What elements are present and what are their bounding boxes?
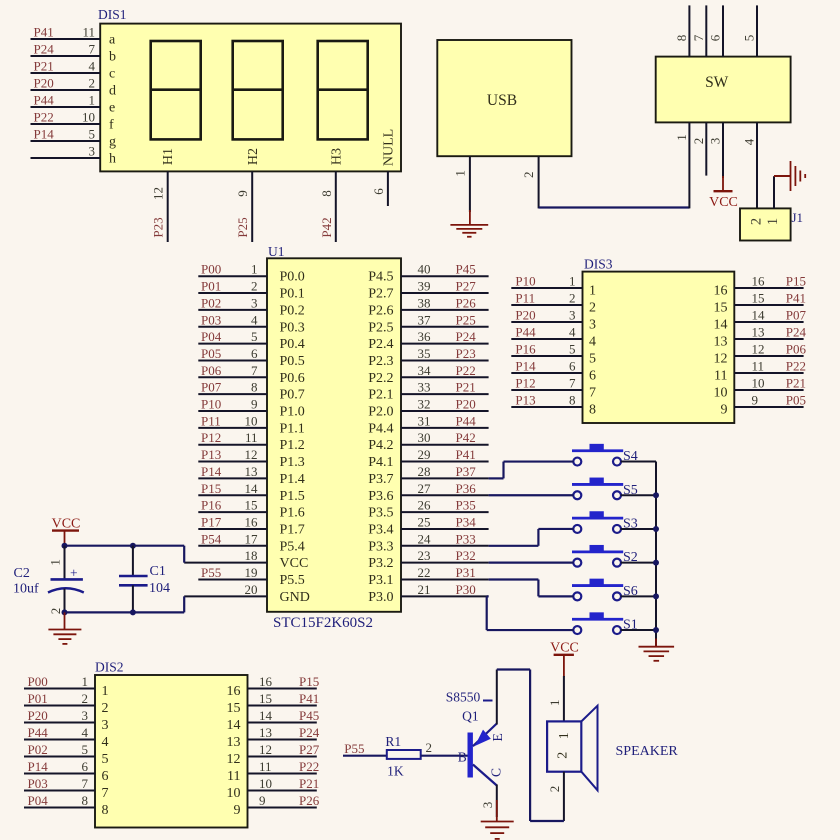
svg-text:P00: P00	[28, 674, 48, 689]
U1 pin 38 (P2.6) net P26	[368, 295, 488, 318]
svg-text:P21: P21	[299, 776, 319, 791]
ground at Q1 collector	[481, 800, 514, 839]
ground below C2	[48, 612, 81, 644]
svg-text:P20: P20	[28, 708, 48, 723]
svg-text:P12: P12	[515, 376, 535, 391]
svg-text:P0.7: P0.7	[280, 388, 305, 403]
Q1 collector pin 3	[480, 785, 497, 818]
U1 pin 32 (P2.0) net P20	[368, 397, 488, 420]
DIS2 pin 10 net P21	[227, 776, 320, 801]
wire net P31 to S6	[489, 580, 574, 597]
svg-text:P0.6: P0.6	[280, 371, 305, 386]
svg-text:27: 27	[418, 481, 432, 496]
svg-text:P31: P31	[456, 565, 476, 580]
svg-text:P22: P22	[34, 110, 54, 125]
svg-text:15: 15	[227, 701, 241, 716]
capacitor C2 10uf (polarized)	[13, 546, 84, 615]
U1 pin 23 (P3.2) net P32	[368, 548, 488, 571]
svg-text:SPEAKER: SPEAKER	[616, 744, 679, 759]
svg-text:1: 1	[547, 700, 562, 707]
svg-text:P41: P41	[299, 691, 319, 706]
svg-text:3: 3	[480, 802, 495, 809]
junction at C1 bottom	[130, 609, 136, 615]
svg-text:P02: P02	[28, 742, 48, 757]
svg-text:1: 1	[89, 93, 96, 108]
svg-text:USB: USB	[487, 92, 517, 109]
svg-text:C: C	[488, 768, 503, 777]
svg-text:11: 11	[227, 769, 240, 784]
svg-text:P3.0: P3.0	[368, 590, 393, 605]
DIS3 pin 3 net P20	[511, 308, 596, 333]
svg-text:P24: P24	[299, 725, 320, 740]
DIS2 pin 8 net P04	[24, 793, 109, 818]
svg-text:h: h	[109, 152, 116, 167]
DIS3 pin 9 net P05	[721, 393, 807, 418]
svg-text:9: 9	[721, 403, 728, 418]
wire ground rail to U1 pin 20	[65, 596, 185, 612]
svg-text:8: 8	[319, 190, 334, 197]
pushbutton switch S2	[572, 545, 656, 567]
svg-text:GND: GND	[280, 590, 310, 605]
svg-text:5: 5	[742, 35, 757, 42]
svg-text:P34: P34	[456, 514, 477, 529]
svg-text:3: 3	[89, 144, 96, 159]
U1 pin 3 (P0.2) net P02	[198, 295, 304, 318]
svg-text:P36: P36	[456, 481, 477, 496]
svg-text:13: 13	[259, 725, 272, 740]
DIS2 pin 7 net P03	[24, 776, 109, 801]
svg-text:12: 12	[245, 447, 258, 462]
ground at J1 (sideways)	[790, 161, 792, 191]
svg-text:13: 13	[227, 735, 241, 750]
junction at VCC node	[62, 543, 68, 549]
svg-text:4: 4	[82, 725, 89, 740]
USB pin 1	[453, 156, 470, 212]
DIS2 pin 4 net P44	[24, 725, 109, 750]
U1 pin 11 (P1.2) net P12	[198, 430, 304, 453]
svg-text:3: 3	[589, 318, 596, 333]
svg-text:P22: P22	[456, 363, 476, 378]
svg-text:12: 12	[151, 187, 166, 200]
svg-text:Q1: Q1	[462, 709, 479, 724]
U1 pin 37 (P2.5) net P25	[368, 312, 488, 335]
svg-text:P16: P16	[201, 498, 222, 513]
svg-text:10: 10	[259, 776, 272, 791]
svg-text:P44: P44	[456, 413, 477, 428]
U1 pin 16 (P1.7) net P17	[198, 514, 304, 537]
DIS2 pin 11 net P22	[227, 759, 319, 784]
svg-text:B: B	[458, 750, 467, 765]
svg-text:P4.2: P4.2	[368, 438, 393, 453]
svg-text:H2: H2	[246, 148, 261, 165]
J1 pin 1 wire to ground	[774, 176, 791, 208]
svg-text:14: 14	[245, 481, 259, 496]
svg-text:P00: P00	[201, 262, 221, 277]
svg-text:g: g	[109, 135, 116, 150]
U1 pin 6 (P0.5) net P05	[198, 346, 304, 369]
U1 pin 33 (P2.1) net P21	[368, 380, 488, 403]
svg-text:5: 5	[589, 352, 596, 367]
svg-text:25: 25	[418, 514, 431, 529]
svg-text:10: 10	[245, 413, 258, 428]
svg-text:7: 7	[691, 34, 706, 41]
SW pin 4	[742, 122, 758, 208]
svg-text:P15: P15	[201, 481, 221, 496]
svg-text:P0.2: P0.2	[280, 303, 305, 318]
wire speaker loop to Q1 emitter	[497, 670, 564, 822]
svg-text:P05: P05	[786, 393, 806, 408]
svg-text:P21: P21	[786, 376, 806, 391]
svg-text:1: 1	[674, 134, 689, 141]
svg-text:18: 18	[245, 548, 258, 563]
svg-text:2: 2	[102, 701, 109, 716]
ground at USB pin 1	[450, 210, 488, 237]
svg-text:P22: P22	[299, 759, 319, 774]
svg-text:6: 6	[589, 369, 596, 384]
junction key bus at S3	[653, 526, 659, 532]
svg-text:11: 11	[714, 369, 727, 384]
svg-text:P07: P07	[201, 380, 222, 395]
svg-text:P5.5: P5.5	[280, 573, 305, 588]
svg-text:P3.6: P3.6	[368, 489, 393, 504]
svg-text:P33: P33	[456, 531, 476, 546]
wire USB pin2 to SW pin1	[539, 206, 690, 208]
U1 pin 14 (P1.5) net P15	[198, 481, 304, 504]
svg-text:2: 2	[48, 608, 63, 615]
svg-text:P1.4: P1.4	[280, 472, 305, 487]
svg-text:1: 1	[453, 170, 468, 177]
svg-text:15: 15	[714, 301, 728, 316]
connector J1	[740, 208, 803, 240]
svg-text:31: 31	[418, 413, 431, 428]
U1 pin 5 (P0.4) net P04	[198, 329, 304, 352]
svg-text:20: 20	[245, 582, 258, 597]
U1 pin 12 (P1.3) net P13	[198, 447, 304, 470]
SW pin 1	[674, 122, 690, 208]
switch block SW	[656, 57, 791, 123]
svg-text:14: 14	[752, 308, 766, 323]
SW pin 2	[691, 122, 707, 175]
svg-text:P37: P37	[456, 464, 477, 479]
DIS1 body	[100, 24, 401, 172]
DIS3 pin 2 net P11	[511, 291, 596, 316]
svg-text:P1.5: P1.5	[280, 489, 305, 504]
svg-text:1: 1	[589, 284, 596, 299]
svg-text:P11: P11	[201, 413, 221, 428]
DIS2 pin 9 net P26	[234, 793, 320, 818]
junction key bus at S1	[653, 627, 659, 633]
svg-text:P21: P21	[456, 380, 476, 395]
svg-text:c: c	[109, 67, 115, 82]
svg-text:P1.6: P1.6	[280, 506, 305, 521]
svg-text:P06: P06	[786, 342, 807, 357]
svg-text:10: 10	[752, 376, 765, 391]
svg-text:P13: P13	[201, 447, 221, 462]
DIS1 pin 7 (b) net P24	[31, 42, 117, 65]
svg-text:30: 30	[418, 430, 431, 445]
DIS3 pin 16 net P15	[714, 274, 807, 299]
svg-text:10uf: 10uf	[13, 582, 39, 597]
svg-text:P01: P01	[201, 279, 221, 294]
svg-text:28: 28	[418, 464, 431, 479]
svg-text:P07: P07	[786, 308, 807, 323]
svg-text:37: 37	[418, 312, 432, 327]
svg-text:H1: H1	[161, 148, 176, 165]
svg-text:6: 6	[371, 188, 386, 195]
svg-text:39: 39	[418, 279, 431, 294]
svg-text:4: 4	[569, 325, 576, 340]
DIS2 pin 5 net P02	[24, 742, 109, 767]
svg-text:P01: P01	[28, 691, 48, 706]
U1 pin 39 (P2.7) net P27	[368, 279, 488, 302]
svg-text:R1: R1	[385, 734, 401, 749]
DIS2 pin 12 net P27	[227, 742, 320, 767]
DIS2 pin 13 net P24	[227, 725, 320, 750]
svg-text:9: 9	[251, 397, 258, 412]
svg-text:11: 11	[245, 430, 258, 445]
USB pin 2	[521, 156, 539, 208]
speaker pin 1	[547, 676, 564, 721]
svg-text:P06: P06	[201, 363, 222, 378]
speaker pin 2	[547, 772, 564, 821]
svg-text:3: 3	[102, 718, 109, 733]
svg-text:P30: P30	[456, 582, 476, 597]
U1 pin 36 (P2.4) net P24	[368, 329, 488, 352]
wire VCC node to U1 pin 18	[65, 546, 185, 563]
svg-text:8: 8	[674, 35, 689, 42]
svg-text:P27: P27	[299, 742, 320, 757]
svg-text:7: 7	[569, 376, 576, 391]
svg-text:5: 5	[102, 752, 109, 767]
svg-text:P16: P16	[515, 342, 536, 357]
svg-text:P14: P14	[201, 464, 222, 479]
svg-text:26: 26	[418, 498, 432, 513]
svg-text:11: 11	[82, 25, 95, 40]
svg-text:P20: P20	[34, 76, 54, 91]
svg-text:P3.2: P3.2	[368, 556, 393, 571]
svg-text:P41: P41	[456, 447, 476, 462]
svg-text:P0.3: P0.3	[280, 320, 305, 335]
svg-text:P12: P12	[201, 430, 221, 445]
svg-text:P23: P23	[456, 346, 476, 361]
svg-text:3: 3	[82, 708, 89, 723]
U1 pin 10 (P1.1) net P11	[198, 413, 304, 436]
svg-text:P05: P05	[201, 346, 221, 361]
U1 pin 27 (P3.6) net P36	[368, 481, 488, 504]
svg-text:7: 7	[89, 42, 96, 57]
junction key bus at S5	[653, 492, 659, 498]
svg-text:3: 3	[569, 308, 576, 323]
svg-text:P2.5: P2.5	[368, 320, 393, 335]
svg-text:P5.4: P5.4	[280, 539, 305, 554]
svg-text:2: 2	[426, 740, 433, 755]
DIS3 pin 15 net P41	[714, 291, 807, 316]
svg-text:d: d	[109, 84, 116, 99]
svg-text:P21: P21	[34, 59, 54, 74]
svg-text:2: 2	[749, 218, 765, 225]
svg-text:P14: P14	[515, 359, 536, 374]
svg-text:P0.5: P0.5	[280, 354, 305, 369]
DIS3 pin 14 net P07	[714, 308, 807, 333]
SW top pin 5	[742, 5, 758, 56]
svg-text:P54: P54	[201, 531, 222, 546]
svg-text:P41: P41	[34, 25, 54, 40]
svg-text:U1: U1	[268, 244, 285, 259]
svg-text:9: 9	[234, 803, 241, 818]
svg-text:2: 2	[82, 691, 89, 706]
svg-text:P20: P20	[456, 397, 476, 412]
svg-text:38: 38	[418, 295, 431, 310]
svg-text:P15: P15	[786, 274, 806, 289]
svg-text:VCC: VCC	[52, 517, 81, 532]
pushbutton switch S5	[572, 478, 656, 500]
svg-text:P42: P42	[456, 430, 476, 445]
svg-text:P44: P44	[34, 93, 55, 108]
svg-text:4: 4	[589, 335, 596, 350]
svg-text:P45: P45	[299, 708, 319, 723]
DIS1 bottom pin 12 net P23	[151, 171, 168, 242]
SW top pin 7	[691, 5, 707, 56]
svg-text:4: 4	[251, 312, 258, 327]
svg-text:VCC: VCC	[280, 556, 309, 571]
U1 pin 18 (VCC)	[184, 548, 308, 571]
svg-text:4: 4	[89, 59, 96, 74]
svg-text:P2.6: P2.6	[368, 303, 393, 318]
display module DIS1	[98, 7, 401, 171]
svg-text:16: 16	[259, 674, 273, 689]
svg-text:P2.7: P2.7	[368, 287, 393, 302]
svg-text:J1: J1	[792, 210, 804, 225]
svg-text:P1.2: P1.2	[280, 438, 305, 453]
svg-text:32: 32	[418, 397, 431, 412]
pushbutton switch S4	[572, 444, 656, 466]
svg-text:8: 8	[589, 403, 596, 418]
svg-text:1: 1	[102, 684, 109, 699]
resistor R1 1K	[385, 734, 420, 779]
junction at C2 bottom	[62, 609, 68, 615]
svg-text:NULL: NULL	[382, 129, 397, 166]
svg-text:E: E	[490, 733, 505, 741]
DIS3 pin 1 net P10	[511, 274, 596, 299]
svg-text:P23: P23	[151, 217, 166, 237]
svg-text:C1: C1	[150, 564, 166, 579]
U1 pin 9 (P1.0) net P10	[198, 397, 304, 420]
DIS1 bottom pin 6 (NULL)	[371, 171, 388, 206]
svg-text:H3: H3	[330, 148, 345, 165]
U1 pin 19 (P5.5) net P55	[198, 565, 304, 588]
svg-text:C2: C2	[14, 566, 30, 581]
svg-text:P17: P17	[201, 514, 222, 529]
svg-text:P45: P45	[456, 262, 476, 277]
svg-text:P2.3: P2.3	[368, 354, 393, 369]
DIS1 7-seg digit outline H1	[151, 41, 201, 139]
microcontroller U1 STC15F2K60S2	[267, 244, 401, 631]
svg-text:8: 8	[251, 380, 258, 395]
svg-text:6: 6	[708, 34, 723, 41]
DIS2 pin 14 net P45	[227, 708, 320, 733]
svg-text:P10: P10	[515, 274, 535, 289]
DIS1 pin 10 (f) net P22	[31, 110, 115, 133]
wire net P30 to S1	[487, 596, 574, 630]
svg-text:34: 34	[418, 363, 432, 378]
svg-text:8: 8	[102, 803, 109, 818]
svg-text:13: 13	[714, 335, 728, 350]
svg-text:21: 21	[418, 582, 431, 597]
svg-text:12: 12	[259, 742, 272, 757]
DIS1 pin 11 (a) net P41	[31, 25, 117, 48]
DIS2 pin 16 net P15	[227, 674, 320, 699]
svg-text:P24: P24	[34, 42, 55, 57]
U1 pin 1 (P0.0) net P00	[198, 262, 304, 285]
svg-text:P04: P04	[28, 793, 49, 808]
svg-text:P11: P11	[515, 291, 535, 306]
DIS3 pin 13 net P24	[714, 325, 807, 350]
R1 pin 2 wire to Q1 base	[421, 740, 468, 756]
svg-text:2: 2	[521, 171, 536, 178]
U1 pin 40 (P4.5) net P45	[368, 262, 488, 285]
svg-text:33: 33	[418, 380, 431, 395]
U1 pin 34 (P2.2) net P22	[368, 363, 488, 386]
svg-text:VCC: VCC	[709, 195, 738, 210]
svg-text:5: 5	[569, 342, 576, 357]
svg-text:2: 2	[89, 76, 96, 91]
svg-text:15: 15	[752, 291, 765, 306]
svg-text:P1.3: P1.3	[280, 455, 305, 470]
power VCC at speaker	[550, 641, 579, 678]
display module DIS2	[95, 660, 248, 828]
svg-text:P14: P14	[34, 127, 55, 142]
wire net P36 to S5	[489, 494, 574, 496]
svg-text:P15: P15	[299, 674, 319, 689]
svg-text:P42: P42	[319, 217, 334, 237]
svg-text:P41: P41	[786, 291, 806, 306]
DIS3 pin 6 net P14	[511, 359, 596, 384]
DIS1 pin 1 (e) net P44	[31, 93, 116, 116]
svg-text:29: 29	[418, 447, 431, 462]
DIS3 pin 8 net P13	[511, 393, 596, 418]
svg-text:7: 7	[102, 786, 109, 801]
svg-text:P0.1: P0.1	[280, 287, 305, 302]
svg-text:P1.0: P1.0	[280, 405, 305, 420]
svg-text:4: 4	[102, 735, 109, 750]
U1 pin 21 (P3.0) net P30	[368, 582, 488, 605]
U1 pin 7 (P0.6) net P06	[198, 363, 304, 386]
svg-text:P26: P26	[456, 295, 477, 310]
DIS1 pin 4 (c) net P21	[31, 59, 116, 82]
svg-text:23: 23	[418, 548, 431, 563]
svg-text:P20: P20	[515, 308, 535, 323]
U1 pin 2 (P0.1) net P01	[198, 279, 304, 302]
svg-text:P24: P24	[456, 329, 477, 344]
svg-text:2: 2	[555, 752, 570, 759]
svg-text:S8550: S8550	[446, 690, 481, 705]
U1 pin 31 (P4.4) net P44	[368, 413, 488, 436]
DIS1 pin 2 (d) net P20	[31, 76, 117, 99]
svg-text:2: 2	[569, 291, 576, 306]
svg-text:3: 3	[251, 295, 258, 310]
DIS2 pin 6 net P14	[24, 759, 109, 784]
svg-text:10: 10	[227, 786, 241, 801]
svg-text:1K: 1K	[387, 764, 404, 779]
svg-text:f: f	[109, 118, 114, 133]
svg-text:11: 11	[752, 359, 765, 374]
transistor Q1 S8550 (PNP)	[446, 690, 505, 786]
svg-text:P3.3: P3.3	[368, 539, 393, 554]
wire net P32 to S2	[489, 562, 574, 564]
svg-text:DIS2: DIS2	[95, 660, 124, 675]
U1 pin 24 (P3.3) net P33	[368, 531, 488, 554]
svg-text:5: 5	[82, 742, 89, 757]
